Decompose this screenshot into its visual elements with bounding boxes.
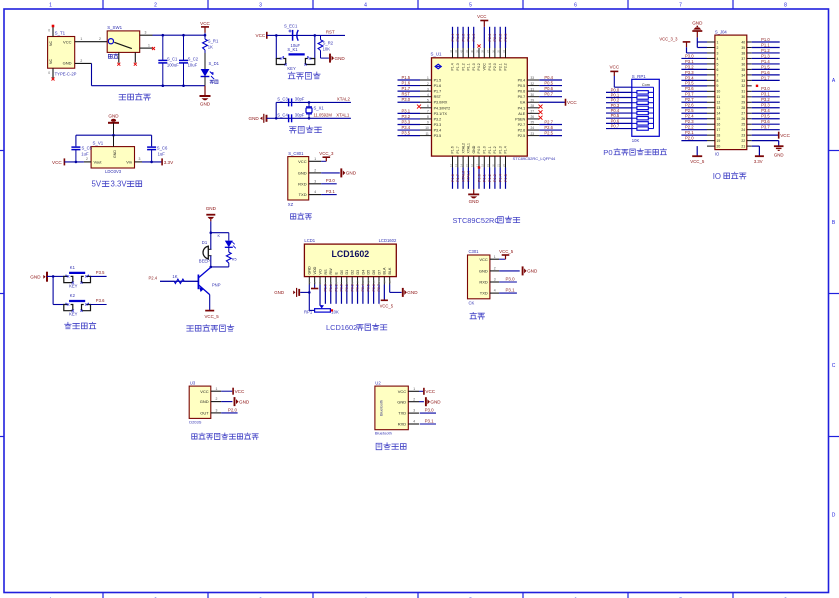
svg-text:100uF: 100uF	[167, 62, 179, 67]
svg-text:P1.2: P1.2	[461, 34, 465, 42]
svg-text:P4.4: P4.4	[488, 63, 492, 70]
U1 left pin 5 P3.0/RX	[398, 97, 448, 105]
svg-text:XTAL2: XTAL2	[337, 96, 351, 101]
svg-text:27: 27	[741, 112, 745, 116]
svg-text:S_R1: S_R1	[208, 39, 219, 44]
U1 left pin 10 P3.4	[398, 125, 442, 133]
svg-text:P3.0: P3.0	[685, 53, 694, 58]
pushbutton K1 KEY	[64, 265, 91, 289]
svg-text:S_C5: S_C5	[82, 145, 93, 150]
svg-text:P1.7: P1.7	[761, 75, 770, 80]
svg-text:P0.4: P0.4	[518, 79, 526, 83]
LCD pin 4 RS	[324, 269, 328, 285]
svg-text:K1: K1	[70, 265, 76, 270]
U1 right pin 28 P4.1	[518, 104, 543, 110]
svg-text:S_R2: S_R2	[323, 41, 334, 46]
wire T1 GND down to bottom rail	[75, 59, 205, 86]
LCD pin 1 GND	[308, 266, 312, 285]
svg-text:17: 17	[717, 128, 721, 132]
svg-text:GND: GND	[774, 153, 784, 158]
U1 right pin 30 P0.7	[518, 92, 562, 100]
svg-text:P1.1: P1.1	[467, 34, 471, 42]
svg-text:VO: VO	[318, 269, 322, 274]
J04 right pin 36	[741, 59, 779, 67]
svg-text:3: 3	[216, 409, 218, 413]
LCD pin 14 D7	[377, 270, 381, 285]
power VCC bt pin1	[419, 388, 436, 395]
svg-text:36: 36	[491, 49, 495, 53]
svg-text:GND: GND	[206, 206, 217, 211]
svg-text:30pF: 30pF	[295, 112, 305, 117]
svg-text:P1.0: P1.0	[483, 146, 487, 153]
U1 left pin 6 P4.3/INT2	[417, 104, 450, 110]
svg-text:C301: C301	[469, 249, 480, 254]
svg-text:XTAL2: XTAL2	[461, 143, 465, 153]
svg-text:BLA: BLA	[383, 267, 387, 275]
svg-text:28: 28	[531, 104, 535, 108]
svg-text:44: 44	[449, 49, 453, 53]
svg-text:P1.3: P1.3	[456, 34, 460, 42]
svg-text:C: C	[832, 363, 836, 369]
svg-text:P1.3: P1.3	[493, 174, 497, 182]
wire LCD net P0.1	[345, 284, 349, 304]
power GND reset	[321, 54, 346, 63]
svg-text:P3.1: P3.1	[506, 288, 516, 293]
net label P0.1 wire rp1	[606, 92, 632, 97]
svg-text:1: 1	[494, 255, 496, 259]
svg-text:5V: 5V	[92, 180, 102, 189]
wire LCD net P1.2	[334, 284, 338, 304]
svg-text:19: 19	[486, 163, 490, 167]
svg-text:7: 7	[427, 110, 429, 114]
U1 top pin 40 P1.0	[470, 27, 476, 71]
svg-text:P1.0: P1.0	[761, 37, 770, 42]
svg-text:P3.2: P3.2	[685, 64, 694, 69]
J04 left pin 2	[697, 46, 718, 50]
svg-text:RXD: RXD	[398, 422, 407, 427]
svg-text:XZ: XZ	[288, 202, 294, 207]
svg-text:13: 13	[717, 106, 721, 110]
U1 left pin 9 P3.3	[398, 119, 442, 127]
svg-text:P4.1: P4.1	[518, 106, 526, 110]
svg-text:D6: D6	[372, 270, 376, 275]
svg-text:IO: IO	[713, 172, 721, 181]
svg-text:10uF: 10uF	[188, 62, 198, 67]
svg-text:1: 1	[427, 76, 429, 80]
LCD pin 8 D1	[345, 270, 349, 285]
svg-text:15: 15	[465, 163, 469, 167]
svg-text:ALE: ALE	[518, 112, 526, 116]
power VCC reset	[256, 32, 277, 39]
svg-text:29: 29	[531, 98, 535, 102]
wire LCD net P0.7	[377, 284, 381, 304]
caption P0-shangla-dianzu-dianlu	[603, 148, 666, 157]
svg-text:S_V1: S_V1	[93, 141, 104, 146]
svg-text:P1.2: P1.2	[488, 174, 492, 182]
net label P0.2 wire rp1	[606, 98, 632, 103]
svg-text:P3.0: P3.0	[326, 178, 336, 183]
svg-text:24: 24	[741, 128, 745, 132]
LCD pin 10 D3	[356, 270, 360, 285]
svg-text:GND: GND	[407, 290, 418, 295]
J04 right pin 38	[741, 48, 779, 56]
svg-text:D0: D0	[340, 270, 344, 275]
svg-text:S_SW1: S_SW1	[107, 25, 122, 30]
svg-text:P3.6: P3.6	[761, 119, 770, 124]
svg-text:37: 37	[486, 49, 490, 53]
svg-text:P1.6: P1.6	[434, 84, 442, 88]
svg-text:1: 1	[717, 40, 719, 44]
svg-text:26: 26	[531, 115, 535, 119]
svg-text:P1.4: P1.4	[499, 174, 503, 182]
svg-text:5: 5	[427, 98, 429, 102]
net label P0.7 wire rp1	[606, 123, 632, 128]
svg-text:RST: RST	[326, 30, 335, 35]
svg-text:VCC: VCC	[298, 159, 307, 164]
U1 top pin 44 P1.4	[449, 27, 455, 71]
svg-text:3.3V: 3.3V	[164, 160, 174, 165]
svg-text:P0.2: P0.2	[350, 284, 354, 291]
J04 left pin 11	[681, 92, 720, 100]
svg-text:P3.2: P3.2	[761, 97, 770, 102]
svg-text:40: 40	[741, 40, 745, 44]
svg-text:31: 31	[741, 90, 745, 94]
svg-text:GND: GND	[346, 171, 357, 176]
svg-text:VCC_5: VCC_5	[205, 314, 220, 319]
power VCC rp1	[609, 64, 631, 87]
svg-text:STC89C52RC_LQFP44: STC89C52RC_LQFP44	[513, 156, 556, 161]
svg-text:21: 21	[741, 145, 745, 149]
svg-text:P2.7: P2.7	[544, 119, 553, 124]
svg-text:21: 21	[497, 163, 501, 167]
svg-text:2: 2	[494, 267, 496, 271]
J04 left pin 19	[681, 136, 720, 144]
svg-text:P0.7: P0.7	[518, 95, 526, 99]
caption anjian-dianlu	[65, 322, 96, 329]
svg-text:S_RP1: S_RP1	[632, 74, 646, 79]
J04 right pin 40	[741, 37, 779, 45]
svg-text:P1.0: P1.0	[477, 174, 481, 182]
svg-text:36: 36	[741, 62, 745, 66]
svg-text:3: 3	[145, 31, 147, 35]
svg-text:S_C2: S_C2	[188, 56, 199, 61]
power VCC pir pin1	[221, 388, 245, 395]
caption renti-reshidian-ganying-mokuai	[192, 433, 258, 439]
J04 left pin 20	[707, 145, 720, 149]
J04 right pin 22	[741, 139, 778, 143]
svg-text:P1.6: P1.6	[451, 146, 455, 153]
svg-text:2: 2	[413, 397, 415, 401]
J04 left pin 7	[681, 70, 718, 78]
svg-text:S_C3: S_C3	[277, 96, 288, 101]
svg-text:D5: D5	[367, 270, 371, 275]
J04 right pin 35	[741, 64, 779, 72]
capacitor S_C2 10uF	[179, 35, 199, 85]
wire crystal left riser	[275, 102, 277, 118]
svg-text:P1.1: P1.1	[488, 146, 492, 153]
svg-text:P0.6: P0.6	[518, 90, 526, 94]
svg-text:VCC_5: VCC_5	[690, 159, 705, 164]
svg-text:KEY: KEY	[69, 312, 78, 317]
svg-text:LCD1: LCD1	[304, 238, 315, 243]
power VCC	[200, 21, 210, 35]
svg-text:11: 11	[361, 280, 365, 283]
svg-text:P2.3: P2.3	[685, 119, 694, 124]
svg-text:D4: D4	[361, 270, 365, 275]
U1 right pin 32 P0.5	[518, 81, 562, 89]
power GND buttons	[30, 272, 53, 282]
wire LCD VO to pot wiper	[319, 285, 321, 306]
svg-text:P1.3: P1.3	[498, 146, 502, 153]
svg-text:3.3V: 3.3V	[111, 180, 128, 189]
caption IO-tuozhankou	[713, 172, 746, 181]
svg-text:KEY: KEY	[287, 66, 296, 71]
svg-text:P3.5: P3.5	[434, 134, 442, 138]
svg-text:39: 39	[475, 49, 479, 53]
svg-text:P1.4: P1.4	[451, 34, 455, 42]
svg-text:P1.7: P1.7	[434, 90, 442, 94]
LCD pin 12 D5	[366, 270, 370, 285]
svg-text:P3.5: P3.5	[685, 81, 694, 86]
module U2 Bluetooth	[375, 380, 419, 435]
svg-text:P2.2: P2.2	[504, 63, 508, 70]
svg-text:GND: GND	[472, 145, 476, 153]
svg-text:TYPE-C-2P: TYPE-C-2P	[55, 72, 77, 77]
LED alarm	[218, 233, 236, 249]
J04 left pin 13	[681, 103, 720, 111]
svg-text:GND: GND	[308, 266, 312, 275]
svg-text:U3: U3	[190, 381, 196, 386]
power GND bt pin2	[419, 397, 441, 406]
regulator S_V1 LDO3V3	[84, 135, 142, 174]
svg-text:GND: GND	[479, 269, 488, 274]
J04 right pin 24	[741, 125, 779, 133]
svg-text:P0.7: P0.7	[544, 92, 553, 97]
svg-text:9: 9	[427, 121, 429, 125]
net label P0.6 wire rp1	[606, 118, 632, 123]
svg-text:9: 9	[717, 84, 719, 88]
svg-text:GND: GND	[30, 274, 41, 279]
svg-text:10: 10	[356, 280, 360, 284]
power VCC_5 alarm emitter	[205, 295, 220, 319]
svg-text:P2.1: P2.1	[493, 34, 497, 42]
resistor network S_RP1 10K	[632, 74, 660, 143]
svg-text:25: 25	[741, 123, 745, 127]
svg-text:42: 42	[460, 49, 464, 53]
svg-text:30pF: 30pF	[295, 96, 305, 101]
svg-text:VCC: VCC	[256, 33, 266, 38]
svg-text:VCC_5: VCC_5	[380, 303, 394, 308]
LCD1 LCD1602 module	[304, 238, 397, 276]
svg-text:16: 16	[388, 280, 392, 284]
J04 left pin 5	[681, 59, 718, 67]
svg-text:VCC: VCC	[398, 389, 407, 394]
svg-text:D: D	[832, 513, 836, 519]
svg-text:P3.0: P3.0	[402, 97, 411, 102]
svg-text:P2.0: P2.0	[685, 136, 694, 141]
U1 bottom pin 14 XTAL2	[460, 143, 466, 189]
svg-text:7: 7	[679, 3, 682, 9]
svg-text:3: 3	[259, 3, 262, 9]
svg-text:11: 11	[717, 95, 721, 99]
transistor Q1 PNP	[160, 267, 221, 295]
svg-text:23: 23	[531, 132, 535, 136]
U1 bottom pin 22 P1.4	[502, 146, 508, 189]
svg-text:15: 15	[717, 117, 721, 121]
svg-text:VCC: VCC	[63, 40, 72, 45]
svg-text:P0.1: P0.1	[345, 284, 349, 291]
svg-text:LCD1602: LCD1602	[331, 249, 369, 259]
resistor S_R2 10K	[318, 35, 334, 54]
svg-text:BLK: BLK	[388, 267, 392, 275]
resistor S_R1 1K	[203, 35, 219, 53]
U1 top pin 34 P2.2	[502, 27, 508, 71]
svg-text:GND: GND	[469, 199, 480, 204]
svg-text:S_EC1: S_EC1	[284, 23, 298, 28]
svg-text:P0: P0	[603, 148, 612, 157]
svg-text:32: 32	[741, 84, 745, 88]
LED S_D1	[201, 53, 220, 86]
U1 top pin 39 P4.2	[475, 44, 481, 70]
svg-text:VCC: VCC	[483, 63, 487, 71]
U1 top pin 37 P4.4	[486, 27, 492, 71]
svg-text:P3.0/RX: P3.0/RX	[434, 101, 448, 105]
svg-text:16: 16	[470, 163, 474, 167]
svg-text:IO: IO	[715, 152, 720, 157]
svg-text:29: 29	[741, 101, 745, 105]
svg-text:P2.0: P2.0	[228, 407, 238, 412]
svg-text:P1.0: P1.0	[472, 63, 476, 70]
resistor 1K base	[160, 274, 198, 284]
wire ldo top rail	[76, 134, 152, 146]
svg-text:Vin: Vin	[126, 160, 132, 165]
svg-text:Vout: Vout	[94, 160, 103, 165]
capacitor S_C5 1uF	[71, 145, 92, 162]
svg-text:11.0592M: 11.0592M	[314, 113, 333, 118]
svg-text:P0.0: P0.0	[340, 284, 344, 291]
svg-text:RW: RW	[329, 268, 333, 275]
svg-text:1: 1	[80, 37, 82, 41]
svg-text:43: 43	[454, 49, 458, 53]
caption jingzhen-dianlu	[289, 126, 321, 133]
svg-text:P1.6: P1.6	[761, 70, 770, 75]
svg-text:30: 30	[741, 95, 745, 99]
power GND	[200, 86, 211, 107]
svg-text:VCC: VCC	[235, 389, 245, 394]
U1 top pin 42 P1.2	[460, 27, 466, 71]
svg-text:P3.4: P3.4	[402, 125, 411, 130]
svg-text:1K: 1K	[172, 274, 177, 279]
switch S_SW1	[107, 25, 155, 66]
capacitor S_C1 100uF	[158, 35, 179, 85]
wire alarm top split	[210, 231, 229, 234]
svg-text:VCC: VCC	[567, 100, 577, 105]
J04 right pin 39	[741, 42, 779, 50]
svg-text:GND: GND	[397, 399, 406, 404]
svg-text:11: 11	[425, 132, 429, 136]
svg-text:P1.1: P1.1	[467, 63, 471, 70]
crystal S_X1 11.0592M	[306, 102, 332, 118]
svg-text:GND: GND	[335, 56, 346, 61]
svg-text:2: 2	[314, 169, 316, 173]
svg-text:P2.6: P2.6	[518, 129, 526, 133]
svg-text:VCC: VCC	[200, 389, 209, 394]
svg-text:3: 3	[494, 278, 496, 282]
svg-text:P1.1: P1.1	[483, 174, 487, 182]
svg-text:P0.6: P0.6	[544, 86, 553, 91]
net label P3.1 download	[321, 189, 337, 195]
wire LCD net P0.2	[350, 284, 354, 304]
svg-text:U2: U2	[375, 380, 381, 385]
svg-text:P1.1: P1.1	[761, 42, 770, 47]
svg-text:16: 16	[717, 123, 721, 127]
svg-text:18: 18	[717, 134, 721, 138]
caption lanya-mokuai	[376, 443, 406, 450]
wire LCD pin1 GND left	[300, 285, 310, 294]
svg-text:P0.5: P0.5	[518, 84, 526, 88]
caption dianyuan-dianlu	[119, 93, 150, 100]
wire LCD net P0.3	[356, 284, 360, 304]
svg-text:GND: GND	[527, 269, 538, 274]
net label P2.0 pir	[221, 407, 237, 413]
svg-text:D2: D2	[351, 270, 355, 275]
svg-text:0: 0	[48, 71, 50, 75]
J04 left pin 10	[681, 86, 720, 94]
svg-text:P3.5: P3.5	[96, 270, 105, 275]
J04 left pin 16	[681, 119, 720, 127]
svg-text:38: 38	[741, 51, 745, 55]
svg-text:3: 3	[139, 157, 141, 161]
svg-text:0: 0	[48, 29, 50, 33]
buzzer D1 BEEP	[199, 233, 212, 264]
caption shengguang-baojing-dianlu	[187, 325, 234, 332]
LCD pin 7 D0	[340, 270, 344, 285]
svg-text:TXD: TXD	[299, 192, 307, 197]
svg-text:8: 8	[784, 3, 787, 9]
U1 bottom pin 15 XTAL1	[465, 143, 471, 189]
svg-text:S_D1: S_D1	[209, 61, 220, 66]
svg-text:P1.3: P1.3	[761, 53, 770, 58]
svg-text:2: 2	[80, 59, 82, 63]
svg-text:38: 38	[481, 49, 485, 53]
svg-text:P3.7: P3.7	[685, 92, 694, 97]
U1 top pin 38 VCC	[477, 14, 488, 71]
svg-text:XTAL1: XTAL1	[336, 113, 350, 118]
svg-text:2: 2	[154, 3, 157, 9]
svg-text:P3.1: P3.1	[326, 189, 336, 194]
svg-text:P1.2: P1.2	[493, 146, 497, 153]
capacitor S_C6 1uF	[147, 145, 168, 162]
LCD pin 6 E	[334, 272, 338, 285]
svg-text:4: 4	[364, 3, 367, 9]
LCD pin 11 D4	[361, 270, 365, 285]
svg-text:P3.6: P3.6	[96, 298, 105, 303]
U1 right pin 33 P0.4	[518, 75, 562, 83]
svg-text:VCC: VCC	[477, 14, 486, 19]
power VCC_5 bottom left of J04	[690, 146, 705, 164]
U1 top pin 36 P2.0	[491, 27, 497, 71]
U1 right pin 26 PSEN	[515, 115, 542, 121]
U1 bottom pin 13 P1.7	[454, 146, 460, 189]
U1 bottom pin 16 GND	[468, 145, 479, 204]
svg-text:26: 26	[741, 117, 745, 121]
capacitor S_C4 30pF	[277, 112, 304, 122]
svg-text:1: 1	[314, 157, 316, 161]
J04 left pin 1	[697, 40, 718, 44]
wire LCD net P0.5	[366, 284, 370, 304]
svg-text:D1: D1	[345, 270, 349, 275]
svg-text:VCC: VCC	[479, 257, 488, 262]
